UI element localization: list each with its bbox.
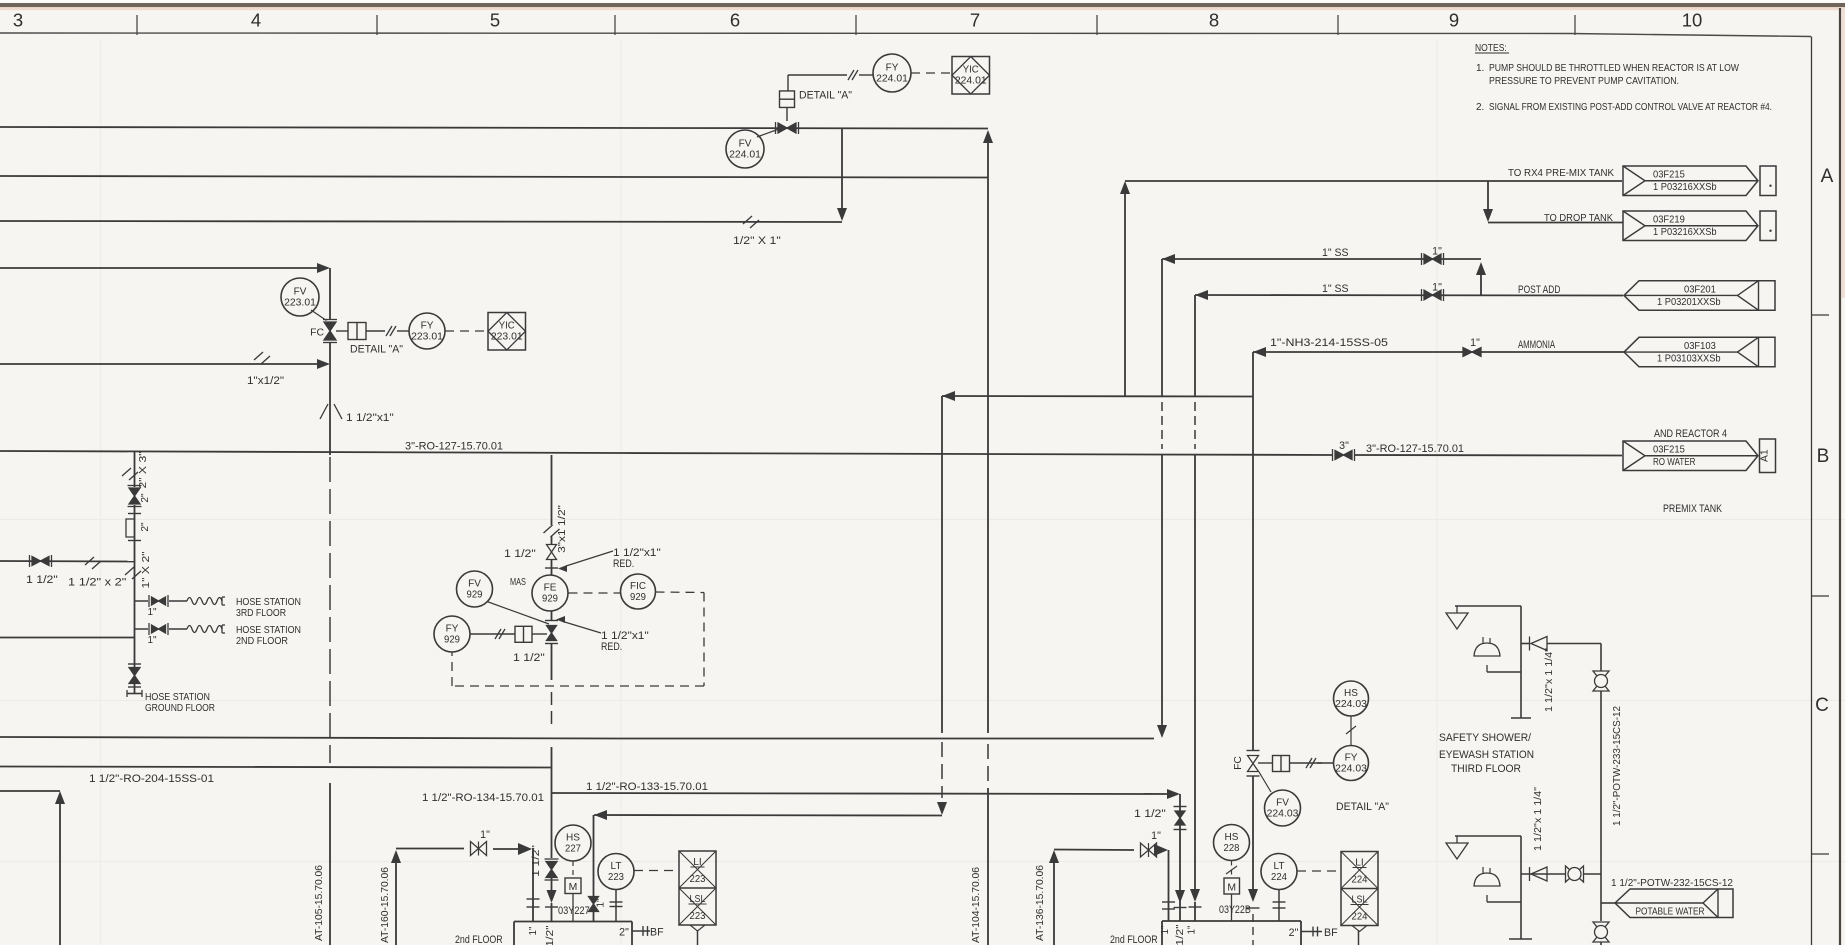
svg-text:EYEWASH STATION: EYEWASH STATION	[1439, 749, 1534, 761]
svg-text:FV: FV	[1276, 798, 1289, 809]
svg-text:1 P03201XXSb: 1 P03201XXSb	[1657, 297, 1721, 308]
svg-text:FY: FY	[886, 63, 899, 74]
svg-text:PUMP SHOULD BE THROTTLED WHEN: PUMP SHOULD BE THROTTLED WHEN REACTOR IS…	[1489, 63, 1739, 74]
svg-text:HOSE STATION: HOSE STATION	[236, 625, 301, 636]
svg-text:227: 227	[565, 844, 581, 855]
svg-text:YIC: YIC	[499, 320, 515, 331]
svg-text:TO RX4 PRE-MIX TANK: TO RX4 PRE-MIX TANK	[1508, 168, 1614, 179]
svg-text:2" X 3": 2" X 3"	[138, 451, 149, 489]
svg-text:YIC: YIC	[963, 64, 979, 75]
svg-text:1 1/2": 1 1/2"	[1134, 808, 1166, 820]
svg-text:224.03: 224.03	[1267, 809, 1299, 820]
svg-text:224.01: 224.01	[955, 76, 987, 87]
svg-text:BF: BF	[650, 927, 664, 939]
svg-text:1" SS: 1" SS	[1322, 247, 1349, 259]
svg-text:FY: FY	[446, 624, 459, 635]
svg-text:1 1/2"-RO-133-15.70.01: 1 1/2"-RO-133-15.70.01	[586, 781, 708, 793]
svg-text:HS: HS	[1225, 832, 1239, 843]
svg-text:1 1/2"-POTW-232-15CS-12: 1 1/2"-POTW-232-15CS-12	[1611, 878, 1733, 889]
svg-text:1": 1"	[147, 607, 157, 618]
svg-text:224: 224	[1352, 912, 1368, 923]
svg-text:1 1/2": 1 1/2"	[504, 548, 536, 560]
svg-text:POST ADD: POST ADD	[1518, 284, 1561, 296]
svg-text:M: M	[569, 882, 578, 893]
svg-text:LSL: LSL	[1352, 895, 1368, 906]
svg-text:HS: HS	[1344, 688, 1358, 699]
svg-text:9: 9	[1449, 10, 1459, 31]
svg-text:FE: FE	[544, 583, 557, 594]
svg-text:LI: LI	[693, 857, 702, 868]
svg-text:3RD FLOOR: 3RD FLOOR	[236, 608, 286, 619]
svg-text:FV: FV	[294, 287, 307, 298]
svg-text:FIC: FIC	[630, 581, 646, 592]
svg-text:RED.: RED.	[613, 558, 634, 570]
svg-text:224.03: 224.03	[1335, 764, 1367, 775]
svg-text:A: A	[1821, 166, 1834, 187]
svg-text:3: 3	[13, 10, 23, 31]
svg-text:224.01: 224.01	[876, 74, 908, 85]
svg-text:03F215: 03F215	[1653, 170, 1685, 181]
svg-text:PRESSURE TO PREVENT PUMP CAVIT: PRESSURE TO PREVENT PUMP CAVITATION.	[1489, 76, 1679, 87]
svg-text:929: 929	[542, 594, 558, 605]
svg-text:HOSE STATION: HOSE STATION	[236, 597, 301, 608]
svg-text:B: B	[1817, 446, 1830, 467]
svg-text:1 1/2"x 1 1/4": 1 1/2"x 1 1/4"	[1544, 648, 1555, 712]
svg-text:03F103: 03F103	[1684, 341, 1716, 352]
svg-text:1": 1"	[1470, 337, 1480, 349]
svg-text:7: 7	[970, 10, 980, 31]
svg-text:LT: LT	[1274, 861, 1285, 872]
svg-text:1": 1"	[480, 829, 490, 841]
svg-text:1/2" X 1": 1/2" X 1"	[733, 235, 781, 247]
svg-text:223: 223	[608, 872, 624, 883]
svg-text:M: M	[1227, 883, 1236, 894]
svg-text:2": 2"	[140, 522, 151, 532]
svg-text:03F219: 03F219	[1653, 215, 1685, 226]
svg-text:223.01: 223.01	[491, 332, 523, 343]
svg-text:HS: HS	[566, 833, 580, 844]
svg-text:1 1/2" x 2": 1 1/2" x 2"	[68, 577, 127, 589]
svg-text:1": 1"	[528, 926, 539, 935]
svg-text:NOTES:: NOTES:	[1475, 43, 1507, 54]
svg-text:1 1/2": 1 1/2"	[513, 652, 545, 664]
svg-text:2ND FLOOR: 2ND FLOOR	[236, 636, 288, 647]
svg-text:1": 1"	[1151, 830, 1161, 842]
svg-text:1": 1"	[1432, 282, 1442, 294]
svg-text:1 1/2"x 1 1/4": 1 1/2"x 1 1/4"	[1533, 787, 1544, 851]
svg-text:GROUND FLOOR: GROUND FLOOR	[145, 703, 215, 714]
svg-text:DETAIL "A": DETAIL "A"	[799, 90, 852, 102]
svg-text:MAS: MAS	[510, 577, 526, 588]
svg-text:1" SS: 1" SS	[1322, 283, 1349, 295]
svg-text:DETAIL "A": DETAIL "A"	[350, 344, 403, 356]
svg-text:929: 929	[444, 635, 460, 646]
svg-text:223: 223	[690, 911, 706, 922]
svg-text:1": 1"	[147, 635, 157, 646]
svg-text:FC: FC	[310, 328, 324, 339]
svg-text:DETAIL "A": DETAIL "A"	[1336, 801, 1389, 813]
svg-text:1 1/2"-POTW-233-15CS-12: 1 1/2"-POTW-233-15CS-12	[1612, 706, 1623, 826]
svg-text:SAFETY SHOWER/: SAFETY SHOWER/	[1439, 732, 1531, 744]
svg-text:223: 223	[690, 874, 706, 885]
svg-text:3"-RO-127-15.70.01: 3"-RO-127-15.70.01	[405, 441, 503, 453]
svg-text:8: 8	[1209, 10, 1219, 31]
svg-text:TO DROP TANK: TO DROP TANK	[1544, 213, 1613, 224]
svg-text:1 1/2": 1 1/2"	[531, 845, 542, 877]
svg-text:929: 929	[630, 592, 646, 603]
svg-text:224.03: 224.03	[1335, 699, 1367, 710]
svg-text:1 P03216XXSb: 1 P03216XXSb	[1653, 227, 1717, 238]
svg-text:BF: BF	[1324, 927, 1338, 939]
svg-text:1"-NH3-214-15SS-05: 1"-NH3-214-15SS-05	[1270, 337, 1388, 349]
svg-text:FC: FC	[1233, 756, 1244, 770]
svg-text:1 1/2"-RO-204-15SS-01: 1 1/2"-RO-204-15SS-01	[89, 773, 214, 785]
svg-text:1" X 2": 1" X 2"	[141, 551, 152, 589]
svg-text:LSL: LSL	[690, 894, 706, 905]
svg-text:AND REACTOR 4: AND REACTOR 4	[1654, 428, 1727, 440]
svg-text:03F215: 03F215	[1653, 445, 1685, 456]
svg-text:THIRD FLOOR: THIRD FLOOR	[1451, 763, 1521, 775]
svg-text:1/2": 1/2"	[545, 925, 556, 945]
svg-text:224: 224	[1271, 872, 1287, 883]
svg-text:224: 224	[1352, 875, 1368, 886]
svg-text:RED.: RED.	[601, 641, 622, 653]
svg-text:HOSE STATION: HOSE STATION	[145, 692, 210, 703]
svg-text:2": 2"	[619, 927, 629, 939]
svg-text:228: 228	[1224, 843, 1240, 854]
svg-text:223.01: 223.01	[411, 332, 443, 343]
svg-text:AT-136-15.70.06: AT-136-15.70.06	[1035, 865, 1046, 941]
svg-text:03F201: 03F201	[1684, 284, 1716, 295]
svg-text:1 1/2"-RO-134-15.70.01: 1 1/2"-RO-134-15.70.01	[422, 792, 544, 804]
svg-text:SIGNAL FROM EXISTING POST-ADD: SIGNAL FROM EXISTING POST-ADD CONTROL VA…	[1489, 102, 1772, 113]
svg-text:1": 1"	[1432, 246, 1442, 258]
svg-text:6: 6	[730, 10, 740, 31]
svg-text:2.: 2.	[1476, 102, 1484, 113]
svg-text:223.01: 223.01	[284, 298, 316, 309]
svg-text:1/2": 1/2"	[1175, 924, 1186, 945]
svg-text:3"-RO-127-15.70.01: 3"-RO-127-15.70.01	[1366, 443, 1464, 455]
svg-text:5: 5	[490, 10, 500, 31]
svg-text:1": 1"	[1187, 925, 1198, 934]
svg-text:3": 3"	[1339, 440, 1349, 452]
svg-text:AMMONIA: AMMONIA	[1518, 339, 1556, 351]
svg-text:C: C	[1815, 695, 1829, 716]
svg-text:AT-160-15.70.06: AT-160-15.70.06	[380, 867, 391, 943]
svg-text:PREMIX TANK: PREMIX TANK	[1663, 503, 1722, 515]
svg-text:FV: FV	[468, 579, 481, 590]
svg-text:2": 2"	[140, 493, 151, 503]
svg-text:LT: LT	[611, 861, 622, 872]
svg-text:2": 2"	[1289, 927, 1299, 939]
svg-text:LI: LI	[1355, 858, 1364, 869]
svg-text:1 P03216XXSb: 1 P03216XXSb	[1653, 182, 1717, 193]
svg-text:929: 929	[467, 590, 483, 601]
svg-text:1"x1/2": 1"x1/2"	[247, 375, 284, 387]
svg-text:RO WATER: RO WATER	[1653, 457, 1696, 468]
svg-text:1": 1"	[596, 898, 607, 907]
svg-text:4: 4	[251, 10, 261, 31]
svg-text:03Y22B: 03Y22B	[1219, 904, 1251, 916]
svg-text:1.: 1.	[1476, 63, 1484, 74]
svg-text:03Y227: 03Y227	[558, 905, 590, 917]
svg-text:AT-105-15.70.06: AT-105-15.70.06	[314, 865, 325, 941]
svg-text:3"x1 1/2": 3"x1 1/2"	[557, 505, 568, 553]
svg-text:1 1/2"x1": 1 1/2"x1"	[346, 412, 394, 424]
svg-text:FY: FY	[421, 321, 434, 332]
svg-text:2nd FLOOR: 2nd FLOOR	[1110, 934, 1158, 945]
svg-text:AT-104-15.70.06: AT-104-15.70.06	[971, 867, 982, 943]
svg-text:FV: FV	[739, 139, 752, 150]
svg-text:1 P03103XXSb: 1 P03103XXSb	[1657, 353, 1721, 364]
svg-text:A1: A1	[1760, 449, 1771, 462]
svg-text:FY: FY	[1345, 753, 1358, 764]
svg-text:224.01: 224.01	[729, 150, 761, 161]
svg-text:2nd FLOOR: 2nd FLOOR	[455, 934, 503, 945]
svg-text:POTABLE WATER: POTABLE WATER	[1636, 907, 1705, 918]
svg-text:10: 10	[1682, 10, 1703, 31]
svg-text:1 1/2": 1 1/2"	[26, 574, 58, 586]
svg-text:1": 1"	[1160, 925, 1171, 934]
